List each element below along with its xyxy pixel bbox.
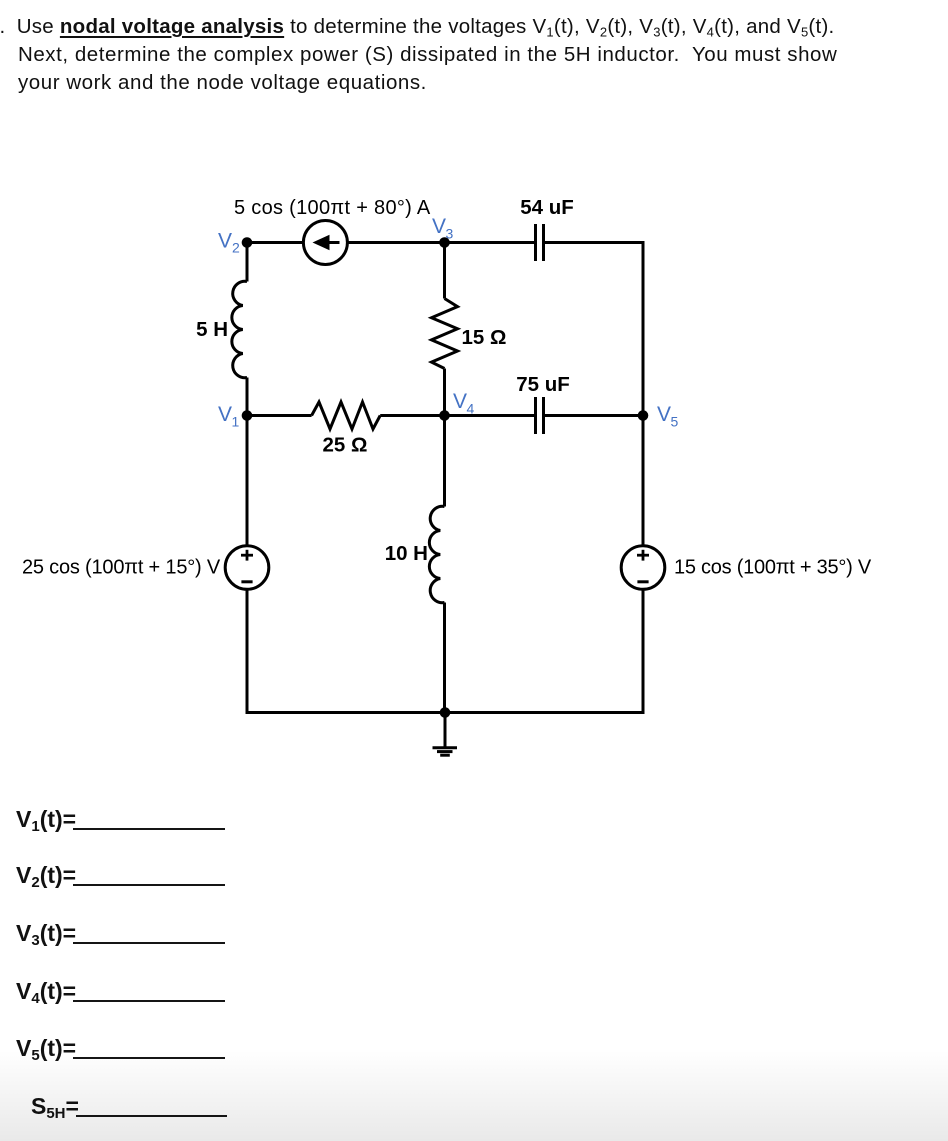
svg-text:54 uF: 54 uF (520, 196, 574, 219)
svg-text:75 uF: 75 uF (516, 373, 570, 396)
svg-text:4: 4 (467, 401, 475, 417)
node dot V1 (242, 410, 253, 421)
node dot V5 (638, 410, 649, 421)
inductor L1 5H (232, 281, 247, 377)
current source I1 circle (303, 221, 347, 265)
svg-text:15 cos (100πt + 35°) V: 15 cos (100πt + 35°) V (674, 557, 872, 579)
svg-text:5 H: 5 H (196, 318, 228, 341)
voltage source VS2 minus sign (637, 580, 648, 583)
node dot V4 (439, 410, 450, 421)
node label V3 (432, 215, 454, 242)
ground stem (444, 713, 447, 748)
svg-text:10 H: 10 H (385, 542, 428, 565)
wire left upper: V2 node to 5H inductor (246, 241, 249, 282)
node label V2 (218, 230, 240, 256)
answer blank V5 (16, 1037, 225, 1060)
label 5 H (196, 318, 228, 341)
label 75 uF (516, 373, 570, 396)
wire left middle: V1 node down to left source (246, 416, 249, 546)
inductor L2 10H (429, 506, 444, 602)
wire middle horizontal: 75uF to V5 (545, 414, 643, 417)
node label V4 (453, 390, 475, 417)
bottom gradient (0, 1050, 948, 1141)
ground symbol bars (433, 748, 458, 755)
answer blank S5H (31, 1095, 227, 1118)
wire middle horizontal: 25 ohm to V4 (380, 414, 444, 417)
voltage source VS1 left circle (225, 546, 269, 590)
label 15 cos (100pit + 35deg) V (674, 557, 872, 579)
svg-text:1: 1 (232, 414, 240, 430)
answer blank V3 (16, 922, 225, 945)
node label V5 (657, 403, 679, 430)
wire top-right: 54uF right plate to top-right corner (545, 241, 643, 244)
voltage source VS1 plus sign (241, 550, 253, 561)
wire left lower: left source to bottom wire (246, 589, 249, 714)
wire bottom (246, 711, 645, 714)
voltage source VS2 plus sign (637, 550, 649, 561)
capacitor C2 75uF plates (536, 397, 544, 434)
label 5 cos (100pit + 80deg) A (234, 197, 431, 219)
resistor R2 25 ohm (312, 402, 381, 429)
node label V1 (218, 403, 240, 430)
node dot ground junction (440, 707, 451, 718)
svg-text:2: 2 (232, 240, 240, 256)
wire middle horizontal: V4 to 75uF (445, 414, 535, 417)
svg-text:3: 3 (446, 226, 454, 242)
label 54 uF (520, 196, 574, 219)
resistor R1 15 ohm (432, 299, 458, 369)
label 25 cos (100pit + 15deg) V (22, 557, 221, 579)
svg-text:5 cos (100πt + 80°) A: 5 cos (100πt + 80°) A (234, 197, 431, 219)
svg-text:V: V (432, 215, 446, 238)
node dot V2 (242, 237, 253, 248)
wire middle horizontal: V1 to 25 ohm (247, 414, 312, 417)
wire top-middle: current source to 54uF left plate (348, 241, 535, 244)
wire right side upper: corner down to right source (642, 241, 645, 546)
svg-text:25 Ω: 25 Ω (323, 434, 368, 457)
capacitor C1 54uF plates (536, 224, 544, 261)
answer blank V4 (16, 980, 225, 1003)
svg-text:15 Ω: 15 Ω (462, 326, 507, 349)
svg-text:V: V (453, 390, 467, 413)
label 25 ohm (323, 434, 368, 457)
problem statement paragraph (18, 13, 938, 97)
wire middle vertical: 10H to ground junction (443, 603, 446, 713)
answer blank V2 (16, 864, 225, 887)
svg-text:5: 5 (671, 414, 679, 430)
wire middle vertical: V4 down to 10H (443, 416, 446, 507)
svg-text:V: V (218, 230, 232, 253)
wire middle vertical: 15 ohm to V4 (443, 369, 446, 416)
label 15 ohm (462, 326, 507, 349)
wire top-left: V2 node to current source (247, 241, 304, 244)
voltage source VS1 minus sign (241, 580, 252, 583)
svg-text:25 cos (100πt + 15°) V: 25 cos (100πt + 15°) V (22, 557, 221, 579)
svg-text:V: V (657, 403, 671, 426)
wire right side lower: right source to bottom wire (642, 589, 645, 712)
svg-text:V: V (218, 403, 232, 426)
wire left below 5H: inductor to V1 node (246, 378, 249, 416)
label 10 H (385, 542, 428, 565)
wire middle vertical: V3 down to 15 ohm resistor (443, 243, 446, 299)
node dot V3 (439, 237, 450, 248)
answer blank V1 (16, 808, 225, 831)
current source I1 arrow (313, 235, 340, 250)
voltage source VS2 right circle (621, 546, 665, 590)
